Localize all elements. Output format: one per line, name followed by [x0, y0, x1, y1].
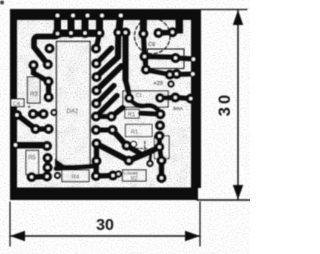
wire: diagonal from pad(126.6,145.6): [127, 146, 140, 154]
capacitor C6 dashed outline: [135, 18, 171, 54]
resistor R2 outline: [123, 170, 147, 181]
wire: two verticals from pads (118.3,33)/(125.5,33): [115, 34, 121, 57]
pads: bus row: [53, 29, 63, 39]
pads: DA1 right column: [91, 44, 101, 54]
wire: left elbow from first bus pad: [34, 37, 56, 64]
wire: mid-right links at y98: [160, 95, 175, 101]
pad on right bar lower: [186, 94, 196, 104]
resistor R1 label box: [125, 110, 139, 119]
pads: bottom middle: [92, 156, 102, 166]
wire: bus pad 99.5 down to column pad: [96, 34, 100, 49]
IC DA1 body: [57, 42, 91, 166]
wire: bottom middle links: [93, 160, 99, 177]
pads: top-right resistor: [141, 65, 151, 75]
dimension: down arrow: [233, 185, 243, 200]
resistor R5 outline: [26, 151, 39, 175]
board frame: bottom bar: [10, 188, 198, 201]
wire: horizontal trace under DA1 bottom: [56, 166, 94, 169]
capacitor C4 outline: [11, 99, 24, 107]
pads: right column: [155, 121, 165, 131]
resistor R4 outline: [62, 170, 89, 182]
pads: transistor area: [122, 141, 132, 151]
dimension: left arrow: [10, 231, 25, 241]
hole in right bar y74: [191, 72, 194, 75]
component box below R1: [126, 125, 153, 137]
resistor R3 outline: [28, 77, 41, 103]
dimension: bottom extension right: [199, 202, 201, 246]
wire: trace pad(33.5,65) down then diagonal to pad(48.5,81.5): [34, 65, 48, 81]
dimension: up arrow: [233, 10, 243, 25]
pads: C6: [138, 29, 148, 39]
dimension: right extension bottom: [197, 199, 250, 201]
dimension: right extension top: [201, 9, 247, 11]
wire: col2 links: [96, 114, 112, 119]
hole in square bar pad: [14, 143, 17, 146]
resistor outline top-right: [148, 49, 185, 69]
dimension: right vertical line: [237, 10, 239, 200]
board frame: left bar: [10, 9, 17, 200]
wire: left row link y114: [33, 111, 44, 116]
board frame: right bar: [191, 9, 201, 188]
scan speck top-left corner: [0, 1, 4, 5]
pad left of R2: [115, 170, 122, 177]
hole in right bar y59: [192, 58, 195, 61]
pads: second column: [107, 112, 117, 122]
wire: stubs from bus pads up to top bar: [58, 20, 144, 31]
small pad near +29: [167, 80, 174, 87]
wire: link pad(146,69.6) to y74 row: [146, 70, 169, 74]
dimension: bottom horizontal line: [10, 235, 200, 237]
pads: left chain top: [45, 44, 55, 54]
transistor dashes: [137, 141, 149, 152]
wire: right column links: [157, 136, 162, 147]
wire: s-curve from C1 left pad to pad (160.4,114.2): [129, 98, 160, 114]
wire: diagonal bar pad to (35.5,129): [18, 116, 35, 129]
pads: C1: [124, 93, 134, 103]
wire: diagonal col2 to transistor pad: [113, 130, 127, 146]
wire: left col bottom links: [45, 158, 50, 168]
dimension: right arrow: [185, 231, 200, 241]
wire: thick trace from square pad to pad(47,146): [16, 142, 47, 149]
transistor outline circle: [131, 141, 137, 147]
capacitor C1 outline mid: [123, 91, 168, 107]
wire: link C6 pads to corner pad: [159, 29, 173, 35]
component box right column: [155, 136, 170, 159]
wire: bottom chain of C6: [145, 54, 179, 60]
square pad on left bar: [10, 138, 17, 151]
wire: C6 bottom pad down to pad (146,69.6): [145, 57, 147, 70]
scan grain overlay: [0, 0, 250, 254]
wire: horizontal bus under top bar: [54, 30, 104, 38]
board frame: top bar: [10, 9, 201, 20]
wire: pads row y74 linked into right bar: [170, 71, 192, 77]
wire: link col pads 143.5-159.5: [94, 144, 99, 160]
pads: left rows: [12, 110, 22, 120]
dimension: bottom extension left: [9, 202, 11, 246]
wire: V junction arms at pad(128.8,160.6): [129, 150, 155, 161]
pad left of R4: [54, 172, 61, 179]
wire: link y129: [36, 126, 49, 131]
pads: C6 bottom chain right: [171, 53, 181, 63]
wire: vertical link left column: [46, 82, 51, 98]
wire: stub left of pad 160,114: [141, 113, 161, 114]
wire: triangle at DA1 bottom-left corner: [55, 159, 66, 167]
pad below C1: [155, 109, 165, 119]
wire: chain y57 into right bar: [176, 55, 193, 61]
wire: thick L from top bar: [176, 20, 184, 34]
wire: fan diagonals to DA1 right column: [97, 57, 119, 77]
pad at L corner: [168, 27, 178, 37]
wire: C6 left pad down to bottom pad: [143, 34, 144, 56]
board interior grain overlay: [17, 20, 191, 188]
top bar pad holes: [56, 14, 123, 18]
